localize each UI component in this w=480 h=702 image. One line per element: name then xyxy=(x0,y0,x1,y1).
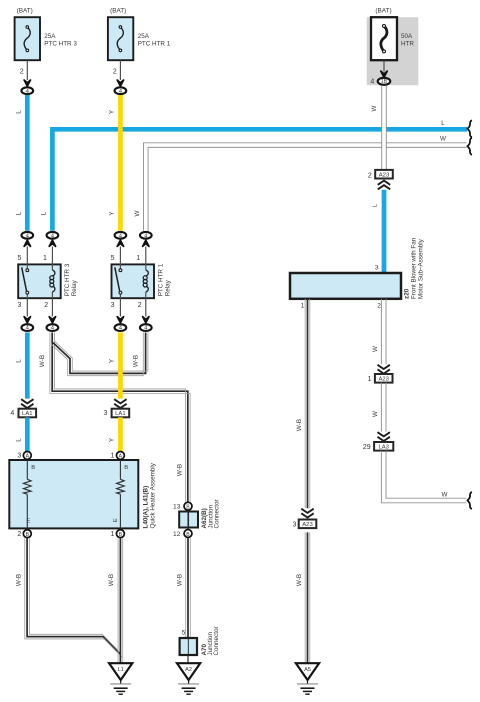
svg-text:A: A xyxy=(26,454,30,460)
label L on blower feed wire xyxy=(373,203,379,207)
svg-text:3: 3 xyxy=(111,302,115,309)
svg-text:13: 13 xyxy=(173,504,181,511)
wire: L blue from horizontal feed, corner down to PTC HTR 3 relay pin 1 xyxy=(52,129,467,231)
svg-text:5: 5 xyxy=(182,630,186,637)
svg-text:HTR: HTR xyxy=(401,41,414,48)
connector node 4 above relay3 pin5 xyxy=(21,232,33,246)
svg-text:L: L xyxy=(15,438,22,442)
continuation brace for L feed xyxy=(468,120,473,137)
svg-text:E: E xyxy=(26,518,30,524)
svg-text:2: 2 xyxy=(17,531,21,538)
svg-text:W: W xyxy=(134,210,141,216)
label W-B on blower pin1 wire xyxy=(296,419,303,431)
label L above relay3 pin 1 xyxy=(40,211,47,215)
svg-text:4: 4 xyxy=(370,78,374,85)
svg-text:12: 12 xyxy=(173,531,181,538)
svg-text:PTC HTR 1: PTC HTR 1 xyxy=(138,41,171,48)
svg-text:2: 2 xyxy=(44,302,48,309)
relay PTC HTR 1 xyxy=(111,247,172,317)
quick heater assembly L40(A), L41(B) xyxy=(9,451,156,538)
wire W-B: heater pin 2 down, corner right, diagonal to ground IL1 xyxy=(25,538,122,657)
svg-text:B: B xyxy=(31,465,35,471)
label W-B below relay3 pin2 xyxy=(39,355,46,367)
label Y above heater pin 1 xyxy=(109,437,116,442)
svg-text:A5: A5 xyxy=(304,667,311,673)
svg-text:W: W xyxy=(372,411,379,417)
svg-text:4: 4 xyxy=(10,410,14,417)
svg-text:(BAT): (BAT) xyxy=(375,8,391,15)
svg-text:Relay: Relay xyxy=(71,279,78,296)
wire: L blue from fuse PTC HTR 3 down to relay pin 5 xyxy=(25,95,30,231)
connector node 4 below relay1 pin2 xyxy=(140,317,152,332)
svg-text:50A: 50A xyxy=(401,33,413,40)
connector node 4 above relay3 pin1 xyxy=(47,232,59,246)
svg-text:A23: A23 xyxy=(302,522,313,528)
svg-text:B: B xyxy=(124,465,128,471)
label W above LA3 xyxy=(372,411,379,417)
svg-text:1: 1 xyxy=(368,376,372,383)
svg-text:1: 1 xyxy=(301,303,305,310)
svg-text:W-B: W-B xyxy=(177,574,184,586)
svg-text:5: 5 xyxy=(111,255,115,262)
in-line connector 1 A23 xyxy=(368,365,393,383)
svg-text:W-B: W-B xyxy=(108,574,115,586)
svg-text:A: A xyxy=(119,454,123,460)
svg-text:L40(A), L41(B): L40(A), L41(B) xyxy=(143,486,150,529)
svg-text:PTC HTR 3: PTC HTR 3 xyxy=(64,263,71,296)
svg-text:1B: 1B xyxy=(381,79,388,85)
svg-text:L: L xyxy=(15,359,22,363)
svg-text:(BAT): (BAT) xyxy=(17,8,33,15)
svg-text:W: W xyxy=(442,492,448,499)
svg-text:B: B xyxy=(186,505,190,511)
label L above relay3 pin 5 xyxy=(15,211,22,215)
fuse 25A PTC HTR 3 xyxy=(15,8,78,81)
svg-text:3: 3 xyxy=(375,264,379,271)
svg-text:PTC HTR 1: PTC HTR 1 xyxy=(157,263,164,296)
svg-text:A23: A23 xyxy=(379,172,390,178)
label W near right edge bottom feed xyxy=(442,492,448,499)
svg-text:29: 29 xyxy=(363,444,371,451)
svg-text:3: 3 xyxy=(292,522,296,529)
wire L blue: LA1 to quick heater pin 3 xyxy=(25,417,30,451)
label W-B above ground A5 xyxy=(296,574,303,586)
ground A2 xyxy=(177,663,200,694)
ground IL1 xyxy=(109,663,132,694)
svg-text:2: 2 xyxy=(20,68,24,75)
fuse 25A PTC HTR 1 xyxy=(108,8,171,81)
label L at right edge of blue feed xyxy=(441,120,445,127)
svg-text:2: 2 xyxy=(113,68,117,75)
wire: Y yellow from fuse PTC HTR 1 down to relay pin 5 xyxy=(118,95,123,231)
wire: W vertical from fusible link 1B to connector A23 pin 2 xyxy=(382,86,387,170)
wire W-B: relay3 pin2 diagonal branch to relay1 pin2 xyxy=(51,333,147,376)
svg-text:E: E xyxy=(113,518,119,522)
svg-text:W: W xyxy=(371,105,378,111)
wire W-B: blower pin 1 down to connector A23 pin 3 xyxy=(305,299,310,509)
svg-text:W-B: W-B xyxy=(132,355,139,367)
connector node 4 below relay1 pin3 xyxy=(115,317,127,332)
label W at right edge of white feed xyxy=(440,136,446,143)
wire W-B: A23 pin 3 down to ground A5 xyxy=(305,532,310,663)
svg-text:L1: L1 xyxy=(118,667,124,673)
svg-text:LA3: LA3 xyxy=(378,444,389,450)
in-line connector 4 LA1 xyxy=(10,399,36,417)
svg-text:A23: A23 xyxy=(378,376,389,382)
in-line connector 3 A23 xyxy=(292,509,316,529)
svg-text:Quick Heater Assembly: Quick Heater Assembly xyxy=(150,462,157,528)
svg-text:W-B: W-B xyxy=(296,419,303,431)
connector node 4 above relay1 pin5 xyxy=(115,232,127,246)
svg-text:B: B xyxy=(119,532,123,538)
connector node 4 above relay1 pin1 xyxy=(140,232,152,246)
connector node 1B below fusible link xyxy=(370,71,390,85)
relay PTC HTR 3 xyxy=(17,247,78,317)
label W above A23 pin 1 xyxy=(372,346,379,352)
svg-text:1: 1 xyxy=(136,255,140,262)
front blower with fan motor sub-assembly xyxy=(290,237,424,309)
label L below relay3 pin3 xyxy=(15,359,22,363)
svg-text:LA1: LA1 xyxy=(115,411,125,417)
svg-text:W-B: W-B xyxy=(177,464,184,476)
svg-text:B: B xyxy=(186,532,190,538)
svg-text:z20: z20 xyxy=(404,288,411,299)
svg-text:Connector: Connector xyxy=(213,626,220,655)
wire Y yellow: LA1 to quick heater pin 1 xyxy=(118,417,123,451)
connector node 4 below fuse PTC HTR 1 xyxy=(115,80,127,95)
svg-text:1: 1 xyxy=(43,255,47,262)
wire L blue: relay3 pin3 down to LA1 connector xyxy=(25,333,30,399)
svg-text:3: 3 xyxy=(17,453,21,460)
label Y on fuse1 wire xyxy=(109,109,116,114)
svg-text:5: 5 xyxy=(17,255,21,262)
wire: W horizontal from 50A link branch to right edge + down to PTC HTR 1 relay pin 1 xyxy=(144,143,467,231)
in-line connector 3 LA1 xyxy=(103,399,129,417)
svg-text:W: W xyxy=(372,346,379,352)
wire Y yellow: relay1 pin3 down to LA1 connector xyxy=(118,333,123,399)
wire W: blower pin 2 down to connector A23 pin 1 xyxy=(381,299,386,365)
svg-text:(BAT): (BAT) xyxy=(110,8,126,15)
svg-text:2: 2 xyxy=(368,172,372,179)
continuation brace for bottom W feed xyxy=(468,492,473,509)
svg-text:L: L xyxy=(441,120,445,127)
svg-text:25A: 25A xyxy=(138,33,150,40)
svg-text:W: W xyxy=(440,136,446,143)
in-line connector 2 A23 xyxy=(368,170,393,190)
svg-text:A2: A2 xyxy=(185,667,192,673)
svg-text:W-B: W-B xyxy=(296,574,303,586)
svg-text:W-B: W-B xyxy=(39,355,46,367)
label W-B on A62-A70 wire xyxy=(177,574,184,586)
svg-text:3: 3 xyxy=(103,410,107,417)
label W-B below relay1 pin2 xyxy=(132,355,139,367)
svg-text:Motor Sub–Assembly: Motor Sub–Assembly xyxy=(417,238,424,299)
label W-B on heater pin1 wire xyxy=(108,574,115,586)
svg-text:1: 1 xyxy=(110,531,114,538)
connector node 4 below relay3 pin2 xyxy=(47,317,59,332)
connector node 4 below fuse PTC HTR 3 xyxy=(21,80,33,95)
svg-text:L: L xyxy=(15,110,22,114)
label W above relay1 pin 1 xyxy=(134,210,141,216)
wire W: A23 pin1 to LA3 xyxy=(381,383,386,432)
label L above heater pin 3 xyxy=(15,438,22,442)
in-line connector 29 LA3 xyxy=(363,432,393,451)
svg-text:LA1: LA1 xyxy=(22,411,32,417)
label W on fusible link wire xyxy=(371,105,378,111)
svg-text:1: 1 xyxy=(110,453,114,460)
svg-text:3: 3 xyxy=(17,302,21,309)
svg-text:PTC HTR 3: PTC HTR 3 xyxy=(44,41,77,48)
label 3 at blower pin 3 xyxy=(375,264,379,271)
svg-text:L: L xyxy=(15,211,22,215)
wire W-B: A62 pin 12 down to A70 pin 5 xyxy=(186,538,191,638)
ground A5 xyxy=(296,663,319,694)
svg-text:Relay: Relay xyxy=(164,279,171,296)
svg-text:Connector: Connector xyxy=(214,499,221,528)
label L on fuse3 wire xyxy=(15,110,22,114)
svg-text:W-B: W-B xyxy=(15,574,22,586)
connector node 4 below relay3 pin3 xyxy=(21,317,33,332)
label Y below relay1 pin3 xyxy=(109,358,116,363)
label W-B on heater pin2 wire xyxy=(15,574,22,586)
junction connector A62(B) xyxy=(173,499,221,538)
svg-text:25A: 25A xyxy=(44,33,56,40)
wire L blue: A23 pin 2 down to blower pin 3 xyxy=(382,190,387,273)
svg-text:2: 2 xyxy=(138,302,142,309)
svg-text:2: 2 xyxy=(377,303,381,310)
svg-text:L: L xyxy=(40,211,47,215)
svg-text:B: B xyxy=(26,532,30,538)
wire W: LA3 down, corner right to edge xyxy=(381,451,466,503)
fusible link 50A HTR with gray background xyxy=(367,8,419,86)
junction connector A70 xyxy=(180,626,221,663)
wire W-B: relay3 pin2 straight down, right to junction column, down to A62 xyxy=(50,333,190,502)
label Y above relay1 pin 5 xyxy=(109,211,116,216)
wire W-B: heater pin 1 down to ground IL1 xyxy=(118,538,123,663)
label W-B on junction column wire xyxy=(177,464,184,476)
continuation brace for W feed xyxy=(468,138,473,155)
